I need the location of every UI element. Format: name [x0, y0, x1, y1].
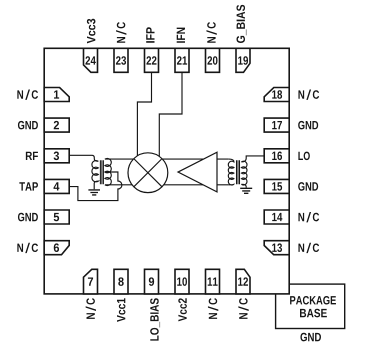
net label GND (left) — [18, 213, 38, 222]
pin 15 box — [264, 179, 289, 193]
pin 10 box — [175, 269, 189, 294]
pin 13 box — [264, 241, 289, 255]
mixer circle — [128, 153, 168, 193]
net label N/C (left) — [17, 243, 38, 253]
net label LO_BIAS (bottom) — [150, 298, 160, 340]
pin 9 box — [145, 269, 159, 294]
wire T1 secondary top to mixer — [105, 158, 133, 160]
ground (T1 primary) — [88, 190, 100, 195]
pin 17 box — [264, 118, 289, 132]
net label N/C (top) — [206, 22, 216, 43]
net label RF (left) — [26, 152, 38, 160]
package outline — [44, 48, 289, 294]
net label N/C (bottom) — [208, 298, 218, 319]
wire T2 primary to ground — [241, 184, 246, 187]
wire IFN (pin 21 to mixer) — [159, 73, 182, 157]
wire mixer to T2 upper — [162, 158, 228, 160]
net label N/C (left) — [17, 90, 38, 100]
pin 24 box — [84, 48, 98, 72]
net label N/C (right) — [298, 212, 319, 222]
LO amplifier triangle — [178, 152, 217, 192]
transformer T2 primary winding — [241, 161, 247, 185]
net label GND (right) — [298, 121, 318, 130]
net label N/C (bottom) — [86, 298, 96, 319]
pin 23 box — [114, 48, 128, 72]
pin 12 box — [236, 269, 250, 294]
pin 20 box — [206, 48, 220, 72]
pin 3 box — [44, 149, 69, 163]
label GND (package base) — [300, 333, 321, 342]
pin 7 box — [84, 269, 98, 294]
wire T1 secondary bottom to mixer — [105, 184, 132, 186]
net label N/C (top) — [116, 22, 126, 43]
net label IFP (top) — [146, 27, 154, 42]
net label GND (left) — [18, 121, 38, 130]
pin 18 box — [264, 88, 289, 102]
pin 2 box — [44, 118, 69, 132]
net label TAP (left) — [19, 182, 38, 190]
net label N/C (right) — [298, 243, 319, 253]
net label Vcc2 (bottom) — [178, 298, 187, 321]
net label Vcc3 (top) — [87, 19, 96, 44]
wire TAP (T1 center tap to pin 4, hops lower wire) — [69, 172, 122, 201]
transformer T1 secondary winding — [105, 158, 111, 185]
label PACKAGE BASE — [290, 296, 336, 305]
pin 6 box — [44, 241, 69, 255]
package base box — [276, 284, 345, 328]
pin 22 box — [145, 48, 159, 72]
pin 21 box — [175, 48, 189, 72]
net label Vcc1 (bottom) — [117, 298, 125, 322]
transformer T1 core — [100, 160, 103, 184]
net label N/C (bottom) — [238, 298, 248, 319]
pin 5 box — [44, 210, 69, 224]
pin 1 box — [44, 88, 69, 102]
wire IFP (pin 22 to mixer) — [137, 73, 151, 156]
pin 16 box — [264, 149, 289, 163]
transformer T1 primary winding — [92, 161, 98, 190]
wire LO (T2 primary to pin 16) — [241, 156, 264, 162]
ground (T2 primary) — [240, 188, 252, 193]
transformer T2 core — [237, 160, 240, 184]
net label N/C (right) — [298, 90, 319, 100]
net label IFN (top) — [177, 28, 185, 43]
net label LO (right) — [298, 152, 309, 161]
transformer T2 secondary winding — [228, 159, 234, 185]
net label G_BIAS (top) — [236, 5, 246, 43]
wire mixer to T2 lower — [164, 184, 229, 186]
net label GND (right) — [298, 182, 318, 191]
pin 14 box — [264, 210, 289, 224]
mixer X — [134, 159, 162, 187]
pin 11 box — [206, 269, 220, 294]
pin 4 box — [44, 179, 69, 193]
pin 8 box — [114, 269, 128, 294]
pin 19 box — [236, 48, 250, 72]
wire RF (pin 3 to T1 primary) — [69, 155, 98, 161]
